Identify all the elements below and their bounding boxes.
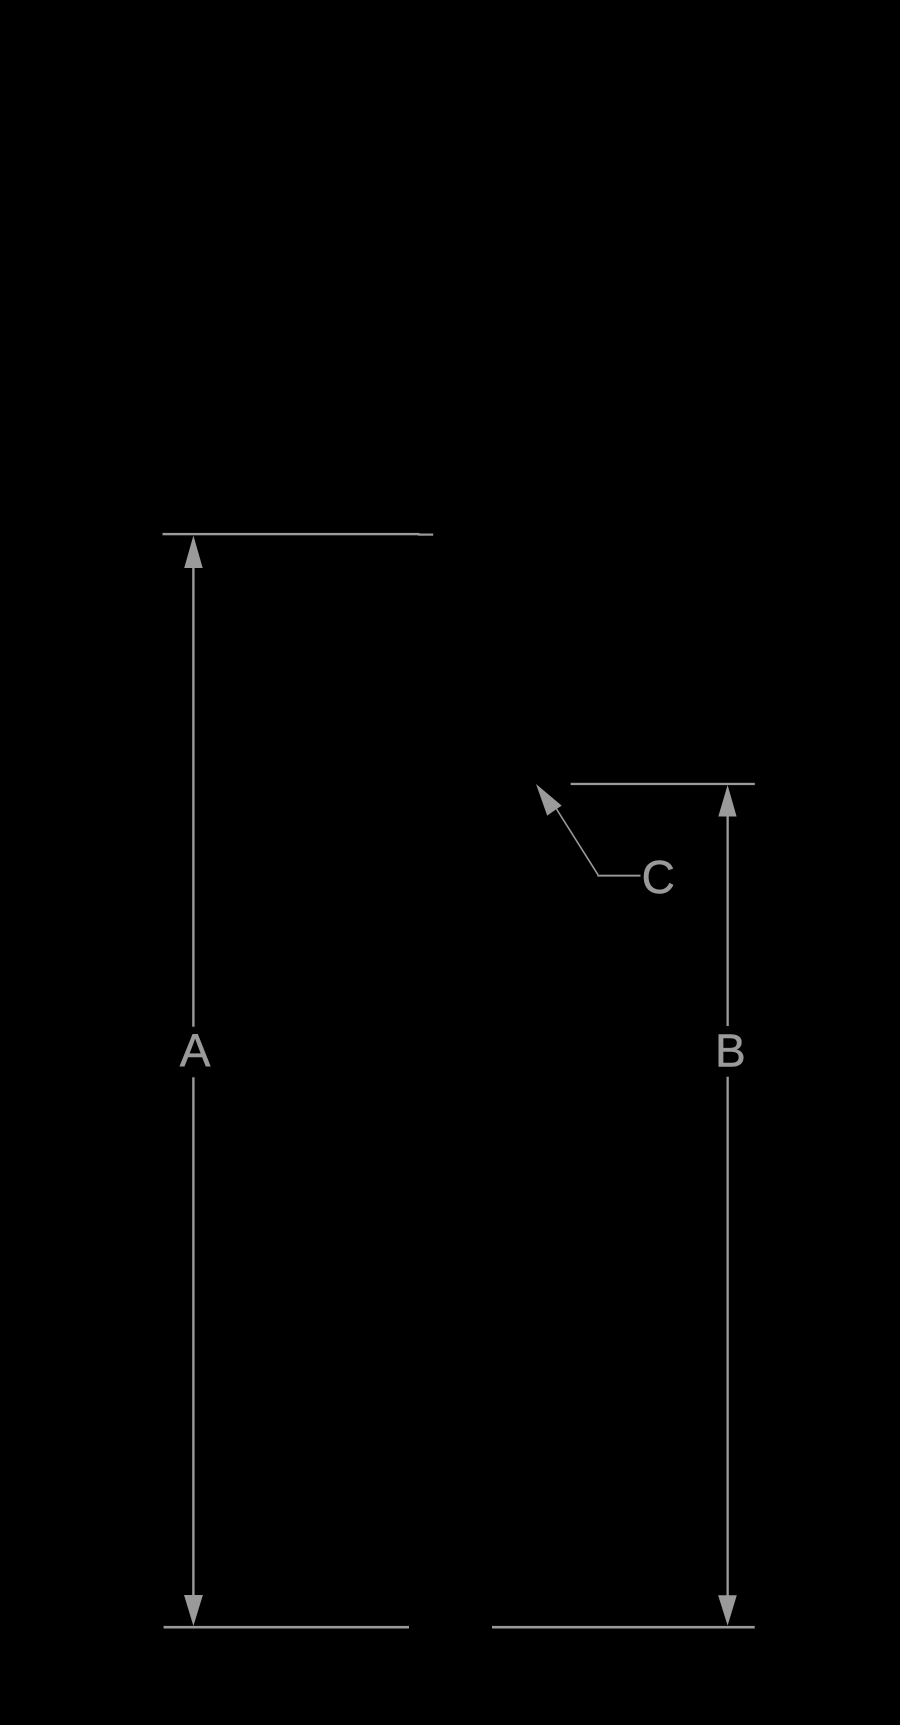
label A <box>180 1025 211 1077</box>
extension line: top-right step segment <box>418 534 433 536</box>
dimension A lower arrowhead <box>184 1595 203 1626</box>
leader C horizontal line <box>597 875 640 877</box>
dimension B shaft lower <box>727 1077 729 1598</box>
svg-text:C: C <box>642 851 675 903</box>
leader C diagonal line <box>557 809 599 875</box>
dimension A shaft upper <box>192 560 194 1027</box>
baseline under B (bottom-right line) <box>492 1626 755 1629</box>
extension line: top of dimension A <box>163 533 420 535</box>
label C <box>642 851 675 903</box>
baseline under A (bottom-left line) <box>164 1626 409 1629</box>
label B <box>715 1024 746 1076</box>
dimension A upper arrowhead <box>184 536 203 569</box>
svg-text:A: A <box>180 1025 211 1077</box>
dimension B lower arrowhead <box>718 1595 737 1625</box>
leader C arrowhead <box>536 784 562 816</box>
extension line: top of dimension B <box>571 783 755 785</box>
dimension A shaft lower <box>192 1077 194 1598</box>
dimension B upper arrowhead <box>718 785 736 817</box>
svg-text:B: B <box>715 1024 746 1076</box>
dimension B shaft upper <box>727 810 729 1026</box>
